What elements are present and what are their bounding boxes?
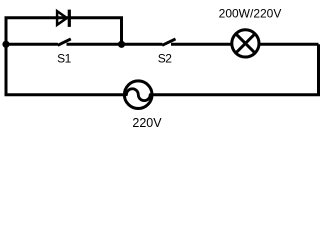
wire outer loop (left vertical lower + bottom + right vertical): [6, 44, 319, 94]
switch S2 blade: [162, 39, 175, 45]
lamp circle: [232, 30, 259, 57]
svg-text:S2: S2: [158, 52, 173, 66]
wire S1 to S2 segment: [67, 43, 163, 46]
wire main line left segment to S1: [6, 43, 58, 46]
AC source sine wave: [126, 89, 150, 101]
diode D1 triangle: [57, 11, 67, 25]
AC source circle: [124, 81, 152, 109]
wire S2 to lamp and lamp to right corner: [171, 43, 319, 46]
node junction dot right (diode branch): [118, 41, 125, 48]
node junction dot left: [2, 41, 9, 48]
wire top branch (left vertical top + diode branch horizontal + branch vertical): [6, 18, 122, 45]
switch S1 blade: [58, 39, 71, 45]
svg-text:220V: 220V: [132, 116, 162, 130]
svg-text:200W/220V: 200W/220V: [219, 7, 282, 21]
lamp X cross line 2: [236, 34, 255, 53]
lamp X cross line 1: [236, 34, 255, 53]
svg-text:S1: S1: [57, 52, 72, 66]
diode D1 cathode bar: [68, 10, 71, 27]
